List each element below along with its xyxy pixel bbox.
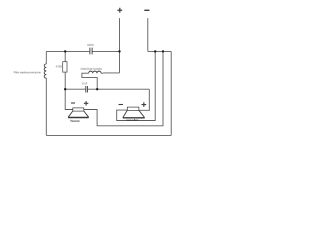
svg-text:Ride zawkosymetriczna: Ride zawkosymetriczna bbox=[14, 70, 41, 74]
label C2 value bbox=[82, 81, 88, 85]
node resistor top bbox=[64, 50, 66, 52]
wire top horizontal left of C1 bbox=[46, 50, 89, 52]
svg-text:Tweeter: Tweeter bbox=[70, 119, 81, 123]
label R1 value bbox=[56, 64, 62, 68]
speaker tweeter bbox=[68, 108, 89, 118]
label woofer bbox=[125, 118, 139, 122]
node bus left bbox=[64, 88, 66, 90]
wire + input vertical bbox=[119, 18, 121, 73]
wire inductor L2 left lead (staple to bus) bbox=[82, 73, 97, 89]
wire − top rail bbox=[148, 50, 171, 52]
wire left branch above coil bbox=[45, 51, 47, 64]
junction dots bbox=[64, 50, 164, 90]
label L2 name bbox=[80, 67, 102, 71]
resistor R1 bbox=[63, 62, 67, 72]
capacitor C1 220nF bbox=[90, 48, 92, 55]
tweeter terminal plus bbox=[84, 101, 88, 105]
wire − input vertical bbox=[147, 18, 149, 51]
node minus rail a bbox=[154, 50, 156, 52]
node minus rail b bbox=[162, 50, 164, 52]
woofer terminal minus bbox=[119, 104, 124, 106]
label L1 name bbox=[14, 70, 41, 74]
node tee at + line bbox=[118, 50, 120, 52]
svg-text:Cewka Duża niemiecka: Cewka Duża niemiecka bbox=[80, 67, 102, 71]
wire inductor L2 right lead bbox=[101, 72, 119, 74]
wire resistor top lead bbox=[64, 51, 66, 61]
capacitor C2 12uF bbox=[86, 86, 88, 93]
wire bus right of C2 bbox=[88, 88, 150, 90]
label C1 value bbox=[87, 43, 94, 47]
speaker woofer bbox=[123, 107, 145, 118]
wire bottom rail bbox=[46, 134, 171, 136]
wire woofer minus branch bbox=[117, 51, 156, 120]
inductor L1 (vertical coil) bbox=[44, 64, 46, 78]
node bus mid bbox=[96, 88, 98, 90]
wire left branch below coil bbox=[45, 78, 47, 135]
wire tweeter minus lead bbox=[65, 89, 73, 109]
svg-text:woofer: woofer bbox=[125, 118, 139, 122]
terminal + (input plus) bbox=[117, 8, 122, 13]
inductor L2 (horizontal coil) bbox=[89, 71, 101, 73]
label tweeter bbox=[70, 119, 81, 123]
wire tweeter plus branch bbox=[84, 51, 163, 125]
woofer terminal plus bbox=[142, 102, 147, 107]
wire resistor bottom lead bbox=[64, 72, 66, 89]
wire top horizontal right of C1 bbox=[93, 50, 120, 52]
wire right rail bbox=[170, 51, 172, 135]
wire woofer plus lead bbox=[139, 89, 149, 110]
terminal − (input minus) bbox=[144, 9, 149, 11]
wire bus left of C2 bbox=[65, 88, 85, 90]
tweeter terminal minus bbox=[71, 102, 75, 104]
